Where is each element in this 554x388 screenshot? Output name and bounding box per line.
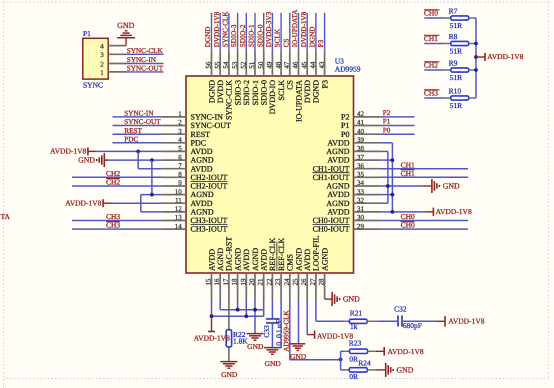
svg-text:35: 35 [357,171,365,179]
svg-text:AGND: AGND [320,248,329,271]
svg-text:48: 48 [274,61,282,69]
svg-text:SYNC-IN: SYNC-IN [127,56,157,64]
svg-text:P0: P0 [383,126,391,134]
svg-text:29: 29 [357,222,365,230]
svg-text:R8: R8 [449,32,458,41]
svg-text:1.8K: 1.8K [233,336,248,345]
svg-text:DGND: DGND [312,80,321,103]
svg-text:SYNC-CLK: SYNC-CLK [127,47,164,55]
svg-text:CH3: CH3 [106,221,120,230]
svg-text:SYNC: SYNC [83,81,103,90]
svg-text:52: 52 [240,61,248,69]
svg-text:44: 44 [309,61,317,69]
svg-text:CMS: CMS [286,254,295,271]
svg-text:SCLK: SCLK [274,28,282,47]
svg-text:DVDD: DVDD [303,80,312,103]
svg-text:15: 15 [205,278,213,286]
svg-text:13: 13 [175,214,183,222]
svg-text:26: 26 [300,278,308,286]
svg-text:33: 33 [357,188,365,196]
svg-text:C33: C33 [262,325,271,338]
svg-text:CH2: CH2 [106,178,120,187]
svg-text:AVDD-1V8: AVDD-1V8 [436,207,472,216]
svg-text:AGND: AGND [326,199,349,208]
svg-text:SDIO-1: SDIO-1 [248,24,256,47]
svg-text:AGND: AGND [326,147,349,156]
svg-text:AVDD-1V8: AVDD-1V8 [487,52,523,61]
svg-text:8: 8 [178,171,182,179]
svg-text:AVDD-1V8: AVDD-1V8 [448,317,484,326]
svg-text:42: 42 [357,110,365,118]
svg-text:CH0: CH0 [424,8,438,17]
svg-text:REF-CLK: REF-CLK [268,237,277,271]
svg-text:AVDD-1V8: AVDD-1V8 [65,199,101,208]
svg-text:680pF: 680pF [403,321,422,330]
svg-text:IO-UPDATA: IO-UPDATA [294,80,303,122]
svg-text:40: 40 [357,127,365,135]
svg-text:SDIO-2: SDIO-2 [242,80,251,105]
svg-text:CH0: CH0 [401,221,415,230]
svg-text:SCLK: SCLK [277,80,286,101]
svg-text:22: 22 [265,278,273,286]
svg-text:GND: GND [397,366,414,375]
svg-text:GND: GND [443,182,460,191]
svg-text:AVDD-1V8: AVDD-1V8 [388,347,424,356]
svg-text:SYNC-OUT: SYNC-OUT [127,65,164,73]
svg-text:CH2: CH2 [106,169,120,178]
svg-text:14: 14 [175,222,183,230]
svg-text:P3: P3 [317,39,325,47]
svg-text:P1: P1 [83,29,91,38]
svg-text:41: 41 [357,119,365,127]
svg-text:GND: GND [247,342,264,351]
svg-text:P1: P1 [383,118,391,126]
svg-text:1: 1 [178,110,182,118]
svg-text:9: 9 [178,179,182,187]
svg-text:DVDD-IO: DVDD-IO [268,80,277,114]
svg-text:21: 21 [257,278,265,286]
svg-text:CS: CS [282,39,290,48]
svg-text:2: 2 [178,119,182,127]
svg-text:16: 16 [213,278,221,286]
svg-text:CH3-IOUT: CH3-IOUT [191,225,228,234]
svg-text:SYNC-OUT: SYNC-OUT [191,121,232,130]
svg-text:4: 4 [178,136,182,144]
svg-text:31: 31 [357,205,365,213]
svg-text:51R: 51R [450,101,463,110]
svg-text:PDC: PDC [124,135,138,143]
svg-text:SDIO-1: SDIO-1 [251,80,260,105]
svg-text:SDIO-3: SDIO-3 [233,80,242,105]
svg-text:28: 28 [318,278,326,286]
svg-text:GND: GND [343,295,360,304]
svg-text:6: 6 [178,153,182,161]
svg-text:AVDD-1V8: AVDD-1V8 [194,333,230,342]
svg-text:LOOP-FIL: LOOP-FIL [312,235,321,271]
svg-text:AVDD: AVDD [260,249,269,271]
svg-text:R21: R21 [350,308,363,317]
svg-text:18: 18 [231,278,239,286]
svg-text:56: 56 [205,61,213,69]
svg-text:30: 30 [357,214,365,222]
svg-text:10: 10 [175,188,183,196]
svg-text:39: 39 [357,136,365,144]
svg-text:AGND: AGND [294,248,303,271]
svg-text:REST: REST [124,127,142,135]
svg-text:DVDD-1V8: DVDD-1V8 [300,11,308,47]
svg-text:34: 34 [357,179,365,187]
svg-text:53: 53 [231,61,239,69]
svg-text:25: 25 [292,278,300,286]
svg-text:1: 1 [100,69,104,77]
svg-text:R7: R7 [449,7,458,16]
svg-text:AVDD: AVDD [242,249,251,271]
svg-text:CH2: CH2 [424,60,438,69]
svg-text:SDIO-2: SDIO-2 [239,24,247,47]
svg-text:36: 36 [357,162,365,170]
svg-text:45: 45 [300,61,308,69]
svg-text:GND: GND [78,156,95,165]
svg-text:0R: 0R [349,355,358,364]
svg-text:SDIO-0: SDIO-0 [256,24,264,47]
svg-text:DVDD-1V8: DVDD-1V8 [213,11,221,47]
svg-text:AD9959-CLK: AD9959-CLK [283,309,291,351]
svg-text:REF-CLK: REF-CLK [277,237,286,271]
svg-text:27: 27 [309,278,317,286]
svg-text:CH1: CH1 [424,34,438,43]
svg-text:23: 23 [274,278,282,286]
svg-text:51R: 51R [450,47,463,56]
svg-text:DGND: DGND [207,80,216,103]
svg-text:55: 55 [213,61,221,69]
svg-text:AGND: AGND [216,248,225,271]
svg-text:TA: TA [1,212,11,221]
svg-text:51: 51 [248,61,256,69]
svg-text:CH1: CH1 [401,169,415,178]
svg-text:CH0-IOUT: CH0-IOUT [313,225,350,234]
svg-text:32: 32 [357,196,365,204]
svg-text:DAC-RST: DAC-RST [225,237,234,271]
svg-text:GND: GND [265,359,282,368]
svg-text:37: 37 [357,153,365,161]
svg-text:17: 17 [222,278,230,286]
svg-text:3: 3 [100,51,104,59]
svg-text:4: 4 [100,43,104,51]
svg-text:7: 7 [178,162,182,170]
svg-text:38: 38 [357,145,365,153]
svg-text:R23: R23 [349,338,362,347]
svg-text:CH2-IOUT: CH2-IOUT [191,173,228,182]
svg-text:GND: GND [221,370,238,379]
svg-text:SYNC-CLK: SYNC-CLK [225,80,234,120]
svg-text:AVDD: AVDD [191,199,213,208]
svg-text:R9: R9 [449,59,458,68]
svg-text:SYNC-IN: SYNC-IN [124,110,154,118]
svg-text:1k: 1k [350,322,358,331]
svg-text:SDIO-3: SDIO-3 [230,24,238,47]
svg-text:0R: 0R [349,372,358,381]
svg-text:CH1-IOUT: CH1-IOUT [313,173,350,182]
svg-text:12: 12 [175,205,183,213]
svg-text:AGND: AGND [251,248,260,271]
svg-text:AVDD: AVDD [303,249,312,271]
svg-text:GND: GND [290,352,307,361]
svg-text:47: 47 [283,61,291,69]
svg-text:5: 5 [178,145,182,153]
svg-text:20: 20 [248,278,256,286]
svg-text:46: 46 [292,61,300,69]
svg-text:CH3: CH3 [424,88,438,97]
svg-text:43: 43 [318,61,326,69]
svg-text:SYNC-OUT: SYNC-OUT [124,118,161,126]
svg-text:AD9959: AD9959 [335,64,361,73]
svg-text:P3: P3 [320,80,329,88]
svg-text:11: 11 [175,196,182,204]
svg-text:DGND: DGND [204,27,212,48]
svg-text:50: 50 [257,61,265,69]
svg-text:SDIO-0: SDIO-0 [260,80,269,105]
svg-text:DGND: DGND [309,27,317,48]
svg-text:54: 54 [222,61,230,69]
svg-text:24: 24 [283,278,291,286]
svg-text:AVDD-1V8: AVDD-1V8 [50,147,86,156]
svg-text:P1: P1 [341,121,349,130]
svg-text:19: 19 [239,278,247,286]
svg-text:3: 3 [178,127,182,135]
svg-text:2: 2 [100,60,104,68]
svg-text:SYNC-CLK: SYNC-CLK [222,11,230,48]
svg-text:DVDD: DVDD [216,80,225,103]
svg-text:R10: R10 [449,87,462,96]
svg-text:C32: C32 [394,304,407,313]
svg-text:51R: 51R [450,73,463,82]
svg-text:DVDD-3V3: DVDD-3V3 [265,11,273,47]
svg-text:49: 49 [266,61,274,69]
svg-text:AVDD: AVDD [191,147,213,156]
svg-text:51R: 51R [450,21,463,30]
svg-text:AGND: AGND [233,248,242,271]
svg-text:AVDD: AVDD [207,249,216,271]
svg-text:R24: R24 [358,359,371,368]
svg-text:CS: CS [286,80,295,90]
svg-text:IO-UPDATA: IO-UPDATA [291,9,299,48]
svg-text:GND: GND [117,21,135,30]
svg-text:P2: P2 [383,109,391,117]
